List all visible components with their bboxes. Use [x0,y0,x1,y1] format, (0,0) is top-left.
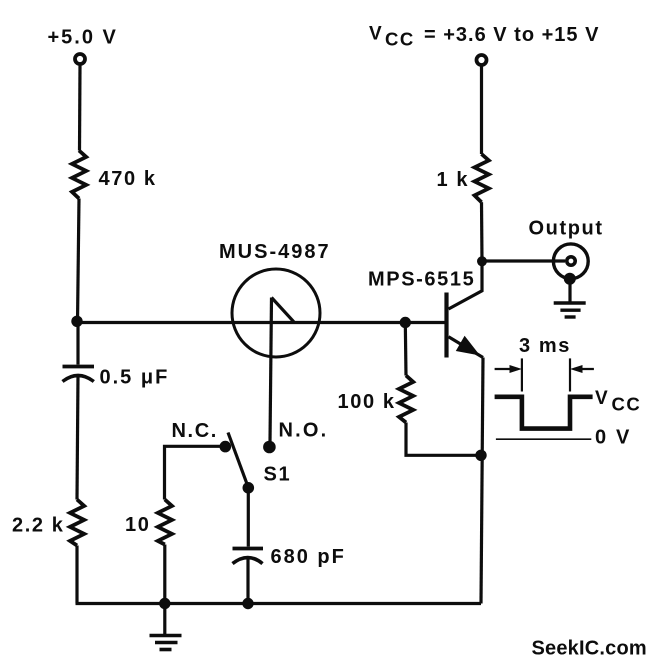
svg-text:10: 10 [125,514,150,536]
svg-text:V: V [595,388,609,409]
svg-text:0: 0 [595,427,607,449]
svg-text:0.5 μF: 0.5 μF [100,367,170,389]
svg-text:470 k: 470 k [99,168,157,190]
svg-text:MUS-4987: MUS-4987 [219,241,331,263]
svg-text:MPS-6515: MPS-6515 [368,269,475,291]
svg-text:= +3.6 V to +15 V: = +3.6 V to +15 V [424,24,599,46]
svg-text:+5.0 V: +5.0 V [48,27,118,49]
svg-text:2.2 k: 2.2 k [12,515,64,537]
svg-text:S1: S1 [264,464,292,486]
svg-text:V: V [616,427,630,449]
svg-text:V: V [369,24,383,45]
svg-text:3 ms: 3 ms [519,335,571,357]
svg-text:1 k: 1 k [437,169,470,191]
svg-text:SeekIC.com: SeekIC.com [532,637,647,659]
svg-text:N.C.: N.C. [172,420,218,442]
svg-text:680 pF: 680 pF [271,546,346,568]
svg-text:CC: CC [385,29,415,50]
svg-text:100 k: 100 k [338,391,396,413]
svg-text:CC: CC [612,394,642,415]
svg-text:N.O.: N.O. [279,420,329,442]
svg-text:Output: Output [529,218,604,240]
